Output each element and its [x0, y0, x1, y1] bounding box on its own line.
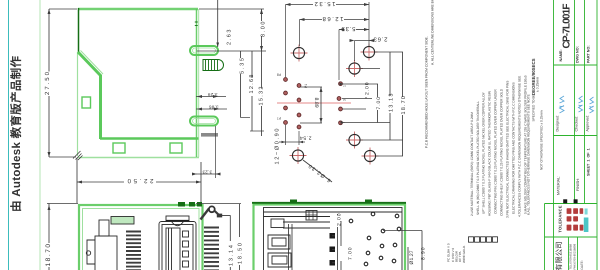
pin labels [277, 73, 347, 121]
company row [555, 241, 585, 270]
svg-text:5.35: 5.35 [341, 25, 356, 32]
svg-text:Checked:: Checked: [575, 116, 579, 132]
dim 2.63 side [216, 0, 232, 47]
svg-text:CP-7L001F: CP-7L001F [562, 4, 573, 49]
svg-text:12~Ø0.90: 12~Ø0.90 [275, 129, 281, 165]
svg-text:P.C.B RECOMMENDED HOLE LAYOUT: P.C.B RECOMMENDED HOLE LAYOUT SEEN FROM … [424, 36, 428, 148]
board lock pin gray [201, 133, 218, 137]
contact pins blob [203, 60, 224, 71]
dim 2.00 pcb [365, 84, 367, 99]
top view inner detail [264, 211, 403, 270]
FRONT VIEW outline [79, 202, 203, 270]
svg-text:3.86: 3.86 [208, 104, 218, 109]
standoff oval 2 [190, 117, 218, 126]
title part no field [587, 45, 591, 63]
dim 22.50 [77, 158, 201, 203]
sheet row [587, 148, 591, 176]
dim 27.50 [44, 9, 77, 157]
front view usb shell [159, 216, 196, 270]
slot 2 [268, 253, 291, 267]
svg-text:FINISH:: FINISH: [576, 178, 580, 191]
svg-text:2.54: 2.54 [300, 135, 312, 141]
svg-text:Approved:: Approved: [586, 115, 590, 132]
slot 1 [268, 235, 290, 249]
foot window 1 [113, 143, 125, 153]
svg-text:P7: P7 [277, 116, 281, 120]
svg-text:DATE:: DATE: [580, 260, 584, 269]
svg-text:CONNECTING PIN: C2680 T 0.25 P: CONNECTING PIN: C2680 T 0.25 PLATING NIC… [494, 89, 498, 214]
front view body rect [95, 236, 117, 270]
svg-text:18.70: 18.70 [401, 96, 407, 115]
checked row [575, 96, 583, 132]
svg-text:15.32: 15.32 [314, 0, 336, 7]
dim 3.23 [192, 126, 221, 178]
dim baseline right of side view [197, 50, 266, 52]
projection marks [563, 199, 577, 203]
wire outer left lower [77, 52, 79, 156]
svg-text:PART NO:: PART NO: [587, 45, 591, 63]
svg-text:P8: P8 [277, 73, 281, 77]
label 6-2.30 leader [303, 160, 332, 183]
svg-text:15.32: 15.32 [259, 87, 265, 106]
corner hatch bottom-left [73, 151, 83, 160]
dim 2.00 top view [332, 213, 343, 270]
svg-text:5.35: 5.35 [240, 58, 246, 74]
front view contact comb left [126, 232, 141, 270]
svg-text:3.23: 3.23 [202, 170, 212, 175]
wire inner vertical [99, 75, 102, 139]
label 12-0.90 [275, 129, 281, 165]
dim 8.90 [383, 231, 427, 270]
svg-text:TOLERANCE: TOLERANCE [558, 205, 563, 232]
dim 13.13 pcb [389, 52, 391, 140]
dim 13.14 [196, 204, 241, 270]
dim 12.68 pcb [300, 15, 370, 46]
svg-text:P1: P1 [304, 84, 308, 88]
dim 3.86 [196, 104, 227, 110]
pin squares [330, 233, 336, 239]
svg-text:ELECTRICAL DRAWING FOR OMITTED: ELECTRICAL DRAWING FOR OMITTED PINS AND … [512, 82, 516, 214]
vent bump 2 [365, 200, 372, 204]
wire inner bottom [100, 137, 199, 140]
approved row [586, 97, 594, 132]
shield clip marks on top edge [178, 202, 185, 207]
dim 7.00 pcb [377, 84, 379, 123]
svg-text:NAME:: NAME: [559, 49, 563, 61]
svg-text:A. ALL CENTERLINE DIMENSIONS A: A. ALL CENTERLINE DIMENSIONS ARE BASIC [430, 0, 434, 65]
vent bump 1 [290, 200, 297, 204]
svg-text:Designed:: Designed: [556, 115, 560, 132]
dim 18.50 [237, 204, 244, 270]
sheet inner border left [39, 0, 41, 270]
dim 1.27 [408, 247, 415, 270]
foot window 2 [170, 143, 182, 153]
TOP VIEW outline [252, 200, 406, 270]
tolerance block left border [544, 204, 546, 270]
designed row [556, 96, 565, 132]
mount circles 2.30 [290, 44, 379, 165]
dim 18.70 pcb [402, 52, 404, 156]
svg-text:2.63: 2.63 [373, 36, 388, 43]
svg-text:18.70: 18.70 [45, 244, 52, 267]
SIDE VIEW part outline [73, 8, 224, 160]
svg-text:2.USE MATERIAL: TERMINAL (56P2: 2.USE MATERIAL: TERMINAL (56P2): C2680 C… [470, 112, 474, 216]
svg-text:8.90: 8.90 [421, 247, 427, 260]
watermark Autodesk educational [9, 56, 23, 213]
wire chamfer [78, 52, 101, 76]
material row [557, 176, 561, 195]
svg-text:DWG NO:: DWG NO: [576, 46, 580, 63]
svg-text:WIRE GOLD.: WIRE GOLD. [462, 245, 466, 263]
svg-text:7.00: 7.00 [376, 97, 382, 110]
svg-text:± 0.25mm: ± 0.25mm [535, 77, 539, 92]
dim 12.68 side [249, 51, 264, 131]
svg-text:3.29: 3.29 [207, 92, 217, 97]
svg-text:6.ALL TOLERANCES NOT OTHERWISE: 6.ALL TOLERANCES NOT OTHERWISE DIMENSION… [527, 94, 531, 215]
svg-text:2.00: 2.00 [365, 82, 371, 95]
wire left edge upper [78, 8, 80, 53]
front view latch bar [111, 217, 134, 225]
front view emi comb right [204, 228, 219, 270]
dim 5.35 pcb [339, 25, 369, 80]
right sheet border [596, 0, 598, 270]
svg-text:由 Autodesk 教育版产品制作: 由 Autodesk 教育版产品制作 [9, 56, 23, 213]
svg-text:3.PIN NOT ELECTRICAL CONNECTED: 3.PIN NOT ELECTRICAL CONNECTED WHERE OMI… [506, 81, 510, 218]
pin holes 0.90 [284, 78, 343, 129]
dim 7.00 top view [339, 221, 354, 270]
svg-text:Ø1.27: Ø1.27 [409, 250, 415, 264]
svg-text:1: 1 [343, 85, 347, 87]
column lines [574, 0, 576, 204]
dim 2.63 pcb [350, 2, 388, 61]
svg-text:3: 3 [343, 99, 347, 101]
small rect top left [271, 219, 284, 228]
dim 5.35 side [238, 51, 251, 118]
svg-text:4.TOLERANCES COMPLY WITH P.C.C: 4.TOLERANCES COMPLY WITH P.C.C DIMENSION… [518, 76, 522, 217]
notes stamp squares [469, 237, 498, 242]
svg-text:12.68: 12.68 [249, 75, 255, 94]
dim 3.29 [196, 92, 226, 98]
svg-text:8.00: 8.00 [261, 22, 267, 38]
note column PCB recommended [424, 36, 428, 148]
TITLE BLOCK [545, 0, 598, 270]
top view hole dots [349, 212, 401, 266]
dim 2.54 [279, 125, 312, 145]
title name field [559, 4, 573, 62]
svg-text:MATERIAL:: MATERIAL: [557, 176, 561, 195]
title dwg no field [576, 46, 580, 63]
front view left bracket [86, 240, 95, 264]
svg-text:SHEET 1 OF 1: SHEET 1 OF 1 [587, 148, 591, 176]
centerline [277, 102, 351, 104]
svg-text:UP" SHELL C2680 T 0.3 PLATING: UP" SHELL C2680 T 0.3 PLATING NICKEL PLA… [482, 91, 486, 214]
standoff oval 1 [190, 46, 218, 55]
svg-text:7.00: 7.00 [348, 247, 354, 260]
svg-text:有限公司: 有限公司 [555, 241, 564, 270]
tolerance block [558, 205, 589, 232]
notes block [470, 58, 544, 218]
notes tiny bottom-left columns [447, 243, 466, 263]
pcb right chain [340, 52, 408, 156]
wire top edge [78, 8, 198, 11]
svg-text:HOUSING: PBT GLASS-F 94V-0 BLA: HOUSING: PBT GLASS-F 94V-0 BLACK COLOR U… [488, 90, 492, 216]
emi hook clip [201, 206, 231, 219]
front view chimney [99, 220, 109, 236]
svg-text:12.68: 12.68 [322, 15, 344, 22]
svg-text:NOT OTHERWISE SPECIFIED ± 0.25: NOT OTHERWISE SPECIFIED ± 0.25mm [540, 110, 544, 170]
svg-text:FAX:0769-85318899: FAX:0769-85318899 [573, 243, 577, 269]
svg-text:2.63: 2.63 [227, 30, 233, 46]
svg-text:CONNECTING SHELF: C2680 T 0.25: CONNECTING SHELF: C2680 T 0.25 PLATING N… [500, 88, 504, 216]
svg-text:13.13: 13.13 [389, 94, 395, 113]
latch block [306, 211, 317, 221]
dim 18.70 front [45, 204, 78, 270]
wire outer bottom [78, 157, 199, 159]
bottom row columns [568, 237, 570, 270]
wire right edge [196, 9, 198, 157]
svg-text:SHELL IN (80) C2680 T 0.3 PLAT: SHELL IN (80) C2680 T 0.3 PLATING NICKEL… [476, 101, 480, 215]
plot stamp border line [8, 0, 10, 270]
inner black rect [264, 208, 403, 270]
dim 8.00 [199, 9, 267, 51]
right edge notch [195, 22, 198, 25]
row lines [554, 64, 598, 66]
svg-text:2.00: 2.00 [337, 213, 343, 226]
hole small square [82, 97, 91, 108]
dim 8.89 [300, 87, 323, 123]
svg-text:8.89: 8.89 [313, 98, 319, 108]
note column centerline basic [430, 0, 434, 65]
title block left border [553, 0, 555, 270]
dim 15.32 pcb [286, 0, 370, 77]
finish row [576, 178, 580, 191]
dim 15.32 side [259, 51, 265, 136]
center bars [289, 224, 293, 270]
svg-text:SPECIFIED TO BE: SPECIFIED TO BE [531, 94, 535, 121]
